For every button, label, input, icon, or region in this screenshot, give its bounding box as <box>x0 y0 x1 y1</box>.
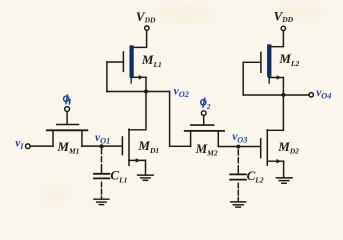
wire MM2 to MD2 gate (node vO3) <box>218 146 260 148</box>
wire MD1 source to ground <box>145 160 147 174</box>
capacitor CL1 <box>94 174 109 179</box>
output terminal vO4 <box>309 93 313 97</box>
transistor ML1 (depletion load) <box>107 46 146 83</box>
junction node vO1 <box>100 144 104 148</box>
wire CL2 to ground (dashed) <box>237 183 239 201</box>
wire ML2 source / MD2 drain vertical <box>267 78 283 131</box>
wire phi2 to MM2 gate <box>203 116 205 125</box>
power VDD terminal (stage 1) <box>145 26 149 30</box>
wire ML1 source / MD1 drain vertical <box>129 77 146 130</box>
clock terminal phi1 <box>65 107 70 112</box>
transistor MM1 (pass transistor) <box>47 125 88 147</box>
wire VDD1 to ML1 drain <box>134 30 147 47</box>
wire ML1 gate feedback <box>106 62 108 92</box>
label phi1 <box>64 94 69 104</box>
transistor MM2 (pass transistor) <box>185 125 224 146</box>
junction node vO3 <box>236 145 240 149</box>
power VDD terminal (stage 2) <box>281 26 285 30</box>
transistor MD1 (driver) <box>122 129 145 165</box>
wire vO1 to CL1 (dashed) <box>101 149 103 170</box>
clock terminal phi2 <box>201 111 206 116</box>
ground MD2 <box>276 178 292 183</box>
wire node vO4 horizontal <box>243 94 309 96</box>
transistor MD2 (driver) <box>261 130 284 165</box>
ground MD1 <box>138 175 154 180</box>
junction node vO4 <box>281 93 285 97</box>
wire ML2 gate feedback <box>242 62 244 95</box>
capacitor CL2 <box>230 174 246 179</box>
junction node vO2 <box>144 89 148 93</box>
wire MM1 to MD1 gate (node vO1) <box>82 145 122 147</box>
wire vI to MM1 <box>30 145 53 147</box>
input terminal vI <box>26 144 31 149</box>
wire vO3 to CL2 (dashed) <box>237 150 239 171</box>
svg-text:2: 2 <box>206 102 211 111</box>
wire node vO2 horizontal <box>107 91 170 93</box>
wire VDD2 to ML2 drain <box>271 31 283 47</box>
ground CL1 <box>94 199 109 204</box>
wire CL1 to ground (dashed) <box>101 182 103 198</box>
wire MD2 source to ground <box>283 161 285 177</box>
ground CL2 <box>231 202 246 207</box>
transistor ML2 (depletion load) <box>243 45 283 83</box>
wire vO2 corner down to MM2 <box>170 92 191 147</box>
wire phi1 to MM1 gate <box>66 112 68 125</box>
label phi2 <box>201 98 206 108</box>
